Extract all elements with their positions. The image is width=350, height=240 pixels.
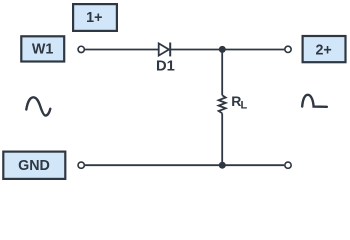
svg-text:L: L (241, 99, 248, 111)
svg-text:D1: D1 (156, 59, 175, 75)
svg-text:GND: GND (18, 158, 50, 174)
svg-text:2+: 2+ (315, 42, 331, 58)
svg-text:W1: W1 (32, 42, 53, 58)
svg-text:1+: 1+ (86, 10, 102, 26)
